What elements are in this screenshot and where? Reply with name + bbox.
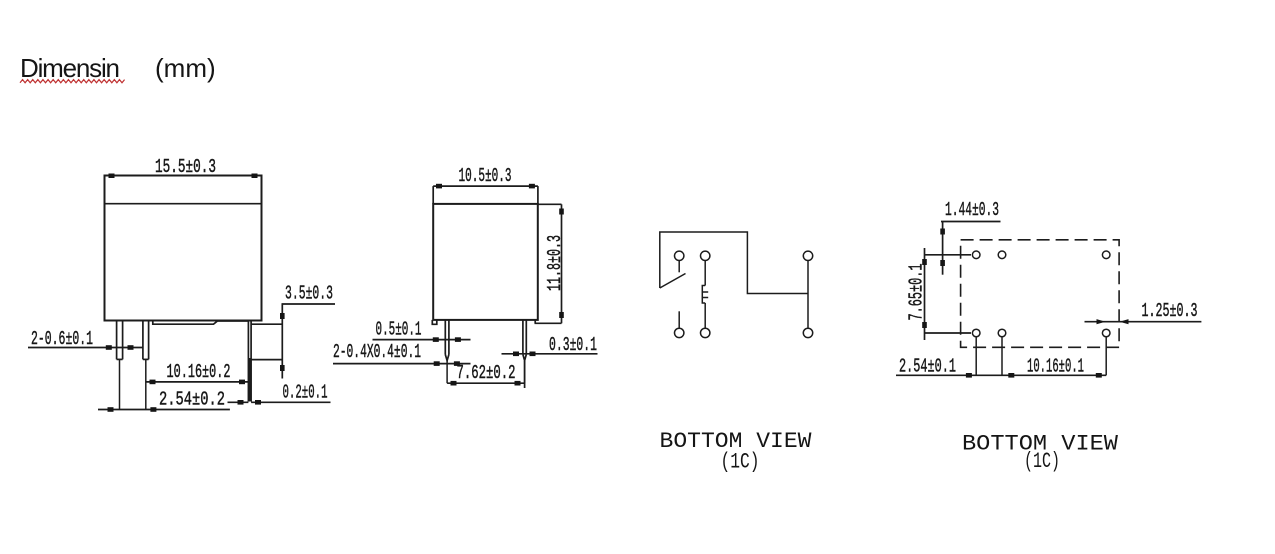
- svg-text:2-0.4X0.4±0.1: 2-0.4X0.4±0.1: [333, 341, 421, 363]
- title (mm): [155, 53, 216, 83]
- dimension 1.44±0.3 label: [945, 199, 999, 221]
- svg-text:(1C): (1C): [1024, 449, 1060, 474]
- schematic pin circle coil bottom: [701, 328, 710, 337]
- dimension 11.8±0.3 label (rotated): [544, 235, 566, 291]
- dimension 0.3±0.1 leader lines: [502, 353, 598, 355]
- dimension 2-0.4X0.4±0.1 label: [333, 341, 421, 363]
- schematic wire right vertical: [807, 261, 809, 329]
- view1 body outline: [105, 176, 262, 321]
- title Dimensin: [20, 53, 120, 83]
- view4 caption (1C): [1024, 449, 1060, 474]
- dimension 10.16±0.2 arrows: [150, 380, 246, 385]
- dimension 10.16±0.1 label: [1027, 356, 1084, 378]
- view4 hole bottom-3: [1102, 329, 1110, 337]
- dimension 10.5±0.3 arrows: [436, 184, 535, 189]
- dimension 0.5±0.1 leader lines: [373, 339, 471, 341]
- schematic coil symbol: [702, 286, 708, 304]
- dimension 2-0.6±0.1 arrows: [106, 345, 134, 350]
- dimension 10.5±0.3 label: [459, 165, 512, 187]
- svg-text:Dimensin: Dimensin: [20, 53, 120, 83]
- view2 right bottom corner step: [534, 320, 536, 323]
- view2 pin A: [445, 320, 449, 383]
- dimension 11.8±0.3 arrows: [559, 209, 564, 319]
- view4 hole top-3: [1102, 251, 1110, 259]
- svg-text:15.5±0.3: 15.5±0.3: [155, 156, 216, 178]
- view2 left bottom corner step: [432, 320, 437, 324]
- svg-text:(mm): (mm): [155, 53, 216, 83]
- svg-text:(1C): (1C): [721, 450, 760, 475]
- dimension 2-0.4X0.4±0.1 arrows: [434, 361, 460, 366]
- dimension 11.8±0.3 line: [535, 204, 562, 323]
- dimension 2.54±0.2 label: [159, 389, 225, 411]
- svg-text:10.5±0.3: 10.5±0.3: [459, 165, 512, 187]
- dimension 15.5±0.3 label: [155, 156, 216, 178]
- view1 pin 2: [143, 321, 149, 410]
- dimension 2-0.6±0.1 label: [31, 328, 93, 350]
- view4 dashed outline: [961, 240, 1120, 347]
- schematic pin circle COM top-right: [803, 251, 812, 260]
- dimension 7.62±0.2 label: [457, 362, 516, 384]
- dimension 0.5±0.1 arrows: [433, 337, 461, 342]
- dimension 1.25±0.3 line: [1085, 321, 1202, 323]
- view1 cover seam line: [105, 203, 262, 205]
- schematic coil wire to bottom: [704, 303, 706, 328]
- schematic wire top: [660, 232, 808, 294]
- dimension 7.65±0.1 arrows: [922, 259, 927, 328]
- dimension 0.2±0.1 arrows: [238, 400, 262, 405]
- dimension 10.16±0.2 line: [146, 381, 250, 383]
- schematic pin circle NO bottom-left: [675, 311, 684, 337]
- schematic pin circle bottom-right: [803, 328, 812, 337]
- dimension 2.54±0.2 arrows: [108, 407, 157, 412]
- view1 pin 3: [248, 321, 251, 402]
- view4 caption BOTTOM VIEW: [962, 432, 1119, 457]
- dimension 0.3±0.1 label: [549, 334, 597, 356]
- view2 body outline: [433, 204, 538, 320]
- view4 bottom dimension arrows: [966, 373, 1102, 378]
- view1 base flange line: [153, 321, 249, 325]
- dimension 3.5±0.3 line: [282, 304, 336, 379]
- schematic caption BOTTOM VIEW: [660, 429, 813, 454]
- dimension 7.62±0.2 line: [447, 361, 524, 388]
- svg-text:7.65±0.1: 7.65±0.1: [906, 264, 928, 321]
- view1 side protrusion: [251, 324, 282, 359]
- view4 extension line hole bottom-2: [1001, 337, 1003, 375]
- dimension 0.5±0.1 label: [376, 319, 422, 341]
- dimension 7.65±0.1 line: [925, 248, 972, 340]
- dimension 1.25±0.3 label: [1142, 300, 1198, 322]
- svg-text:10.16±0.2: 10.16±0.2: [167, 361, 231, 383]
- svg-text:2.54±0.1: 2.54±0.1: [899, 356, 956, 378]
- view4 hole bottom-1: [972, 329, 980, 337]
- svg-text:3.5±0.3: 3.5±0.3: [285, 283, 333, 305]
- svg-text:11.8±0.3: 11.8±0.3: [544, 235, 566, 291]
- dimension 0.3±0.1 arrows: [513, 352, 536, 357]
- dimension 7.62±0.2 arrows: [451, 381, 521, 386]
- dimension 10.16±0.2 label: [167, 361, 231, 383]
- dimension 2.54±0.2 baseline: [98, 409, 230, 411]
- svg-text:10.16±0.1: 10.16±0.1: [1027, 356, 1084, 378]
- dimension 7.65±0.1 label (rotated): [906, 264, 928, 321]
- view4 hole top-2: [998, 251, 1006, 259]
- red spellcheck wavy underline: [20, 80, 125, 83]
- svg-text:1.44±0.3: 1.44±0.3: [945, 199, 999, 221]
- dimension 2-0.4X0.4±0.1 leader lines: [333, 363, 471, 365]
- svg-text:0.5±0.1: 0.5±0.1: [376, 319, 422, 341]
- dimension 1.44±0.3 arrows: [940, 229, 945, 267]
- schematic pin circle NC top-left: [675, 251, 684, 272]
- view1 pin 1: [117, 321, 123, 410]
- view4 bottom dimension baseline: [896, 374, 1106, 376]
- view2 pin B: [523, 320, 526, 383]
- dimension 0.2±0.1 leader lines: [228, 401, 331, 403]
- view4 extension line hole bottom-1: [975, 337, 977, 375]
- dimension 10.5±0.3 line: [433, 186, 538, 204]
- view4 hole bottom-2: [998, 329, 1006, 337]
- view4 hole top-1: [972, 251, 980, 259]
- svg-text:2.54±0.2: 2.54±0.2: [159, 389, 225, 411]
- svg-text:0.3±0.1: 0.3±0.1: [549, 334, 597, 356]
- schematic caption (1C): [721, 450, 760, 475]
- dimension 15.5±0.3 arrows: [109, 174, 258, 179]
- schematic switch blade: [660, 274, 686, 289]
- svg-text:1.25±0.3: 1.25±0.3: [1142, 300, 1198, 322]
- svg-text:7.62±0.2: 7.62±0.2: [457, 362, 516, 384]
- dimension 2-0.6±0.1 leader line: [28, 347, 143, 349]
- svg-text:0.2±0.1: 0.2±0.1: [283, 382, 328, 404]
- schematic pin circle coil top: [701, 251, 710, 285]
- dimension 0.2±0.1 label: [283, 382, 328, 404]
- view4 extension line hole bottom-3: [1105, 337, 1107, 375]
- dimension 3.5±0.3 arrows: [280, 313, 285, 371]
- dimension 2.54±0.1 label: [899, 356, 956, 378]
- dimension 1.44±0.3 lines: [941, 222, 1001, 275]
- dimension 1.25±0.3 arrows: [1097, 319, 1129, 324]
- dimension 3.5±0.3 label: [285, 283, 333, 305]
